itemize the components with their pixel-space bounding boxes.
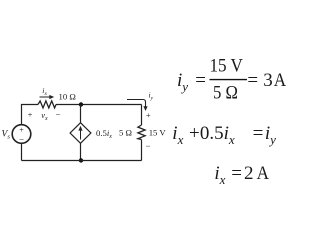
- svg-text:−: −: [55, 110, 60, 120]
- svg-text:15 V: 15 V: [209, 56, 243, 77]
- svg-text:=: =: [195, 70, 206, 91]
- equation 1: iy = 15V/5ohm = 3A: [177, 56, 286, 104]
- svg-text:vx: vx: [41, 110, 48, 122]
- svg-text:Vs: Vs: [2, 130, 11, 141]
- wire dep source top: [80, 105, 82, 123]
- svg-text:+: +: [19, 126, 24, 135]
- svg-text:15 V: 15 V: [149, 128, 167, 138]
- equation 3: ix = 2A: [214, 163, 269, 187]
- svg-text:ix: ix: [214, 163, 225, 187]
- svg-text:iy: iy: [149, 91, 154, 102]
- current arrow ix: [40, 95, 55, 99]
- svg-text:−: −: [19, 135, 24, 145]
- wire top middle: [56, 104, 142, 106]
- svg-text:+: +: [189, 123, 200, 144]
- svg-text:0.5ix: 0.5ix: [96, 128, 112, 140]
- label 15V polarity: [145, 110, 150, 151]
- svg-text:5 Ω: 5 Ω: [213, 83, 238, 104]
- wire right vertical top: [141, 105, 143, 126]
- resistor R 5ohm: [138, 125, 145, 140]
- svg-text:=: =: [231, 163, 242, 184]
- svg-text:=: =: [247, 70, 258, 91]
- wire dep source bottom: [80, 143, 82, 160]
- svg-text:10 Ω: 10 Ω: [59, 91, 76, 101]
- wire bottom: [22, 160, 142, 162]
- svg-text:iy: iy: [177, 70, 188, 94]
- svg-text:=: =: [253, 123, 264, 144]
- svg-text:2: 2: [244, 163, 254, 184]
- svg-text:iy: iy: [265, 123, 276, 147]
- svg-text:0.5ix: 0.5ix: [200, 123, 235, 147]
- svg-text:−: −: [145, 141, 150, 151]
- wire right vertical bottom: [141, 140, 143, 161]
- node dot top: [79, 102, 83, 106]
- resistor R 10ohm: [38, 101, 56, 108]
- dependent current source 0.5ix: [70, 123, 91, 144]
- equation 2: ix + 0.5ix = iy: [172, 123, 276, 147]
- wire left bottom: [21, 143, 23, 160]
- wire left top: [22, 105, 39, 125]
- svg-text:A: A: [274, 70, 287, 91]
- svg-text:5 Ω: 5 Ω: [119, 128, 132, 138]
- svg-text:3: 3: [263, 70, 273, 91]
- svg-text:+: +: [146, 110, 151, 120]
- svg-text:ix: ix: [42, 86, 47, 97]
- label vx polarity: [28, 110, 61, 122]
- voltage source Vs: [12, 125, 31, 145]
- svg-text:+: +: [28, 110, 33, 120]
- svg-text:ix: ix: [172, 123, 183, 147]
- svg-text:A: A: [257, 163, 270, 184]
- node dot bottom: [79, 158, 83, 162]
- current arrow iy: [127, 100, 148, 112]
